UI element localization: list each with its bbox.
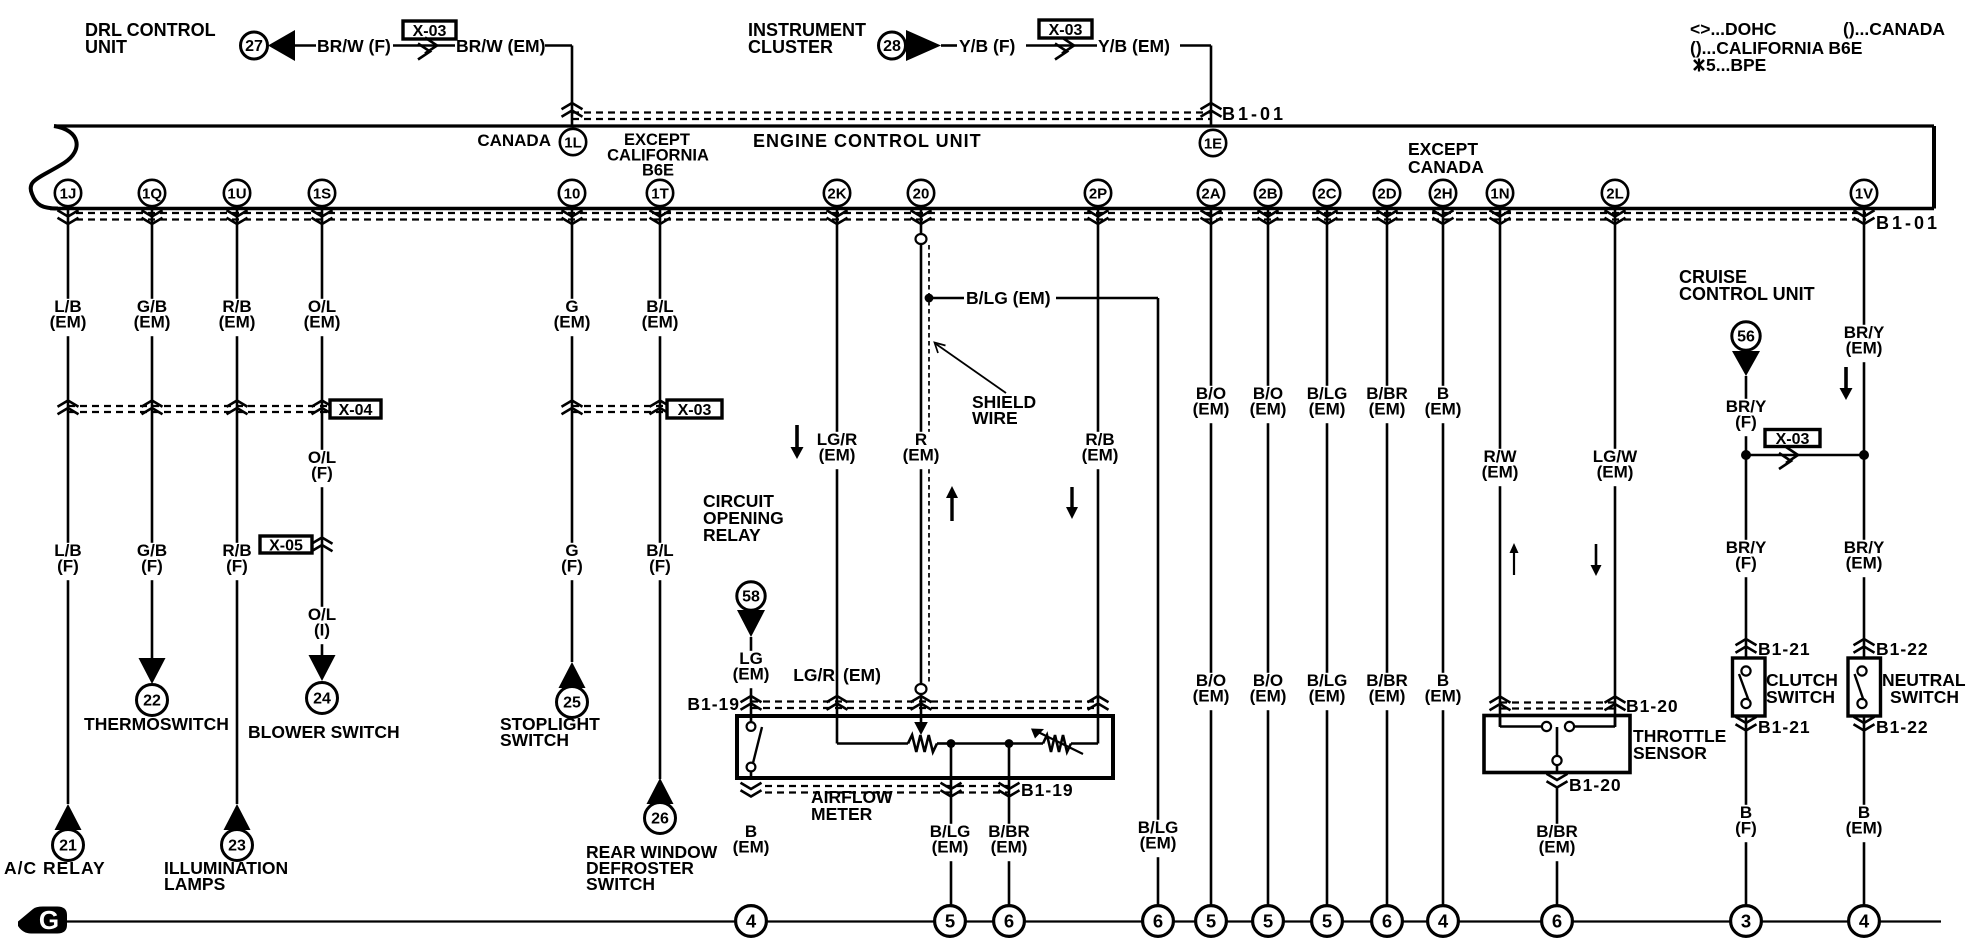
bus B1-19 lower dashed <box>765 785 1009 787</box>
svg-text:CANADA: CANADA <box>1408 157 1484 177</box>
connector B1-21 lower <box>1736 717 1757 723</box>
wire 1S O/L <box>321 208 324 657</box>
svg-text:2B: 2B <box>1258 186 1277 203</box>
svg-text:(F): (F) <box>57 557 79 576</box>
svg-text:(EM): (EM) <box>219 313 256 332</box>
ground pin 3 clutch <box>1731 906 1762 937</box>
svg-text:X-03: X-03 <box>413 23 447 40</box>
ground pin 6 2D <box>1372 906 1403 937</box>
ECU pin 2L <box>1602 180 1628 206</box>
ground pin 4 neutral <box>1849 906 1880 937</box>
svg-text:LG/R: LG/R <box>793 665 835 685</box>
connector B1-20 lower <box>1547 774 1568 780</box>
throttle sensor contacts <box>1499 715 1502 727</box>
svg-text:()...CANADA: ()...CANADA <box>1843 19 1945 39</box>
svg-text:(EM): (EM) <box>1846 339 1883 358</box>
wire 2D B/BR <box>1386 208 1389 906</box>
svg-text:1V: 1V <box>1855 186 1873 203</box>
ECU pin 1T <box>647 180 673 206</box>
svg-text:(F): (F) <box>1735 413 1757 432</box>
svg-text:1S: 1S <box>313 186 331 203</box>
svg-text:SWITCH: SWITCH <box>1766 687 1835 707</box>
label B/O (EM) 2A lower <box>1187 673 1235 710</box>
svg-text:(EM): (EM) <box>1250 687 1287 706</box>
ECU pin 2A <box>1198 180 1224 206</box>
label B/L (F) <box>641 543 679 580</box>
label O/L (F) <box>303 450 341 487</box>
svg-text:BR/W (F): BR/W (F) <box>317 36 391 56</box>
wire 1T B/L <box>659 208 662 779</box>
wire B/BR throttle <box>1556 788 1559 906</box>
svg-text:1Q: 1Q <box>142 186 162 203</box>
svg-text:1L: 1L <box>564 135 582 152</box>
thermoswitch 22 <box>139 658 166 684</box>
svg-text:(EM): (EM) <box>819 446 856 465</box>
wire 2K LG/R <box>836 208 839 744</box>
clutch switch SW1 <box>1733 658 1766 716</box>
svg-text:CANADA: CANADA <box>477 131 551 150</box>
wire 2L LG/W <box>1614 208 1617 727</box>
svg-text:(F): (F) <box>649 557 671 576</box>
svg-text:(EM): (EM) <box>50 313 87 332</box>
svg-text:(EM): (EM) <box>1369 400 1406 419</box>
svg-text:METER: METER <box>811 804 873 824</box>
svg-text:Y/B (F): Y/B (F) <box>959 36 1015 56</box>
svg-text:X-05: X-05 <box>269 537 303 554</box>
svg-text:1J: 1J <box>60 186 77 203</box>
svg-text:(EM): (EM) <box>932 838 969 857</box>
svg-text:RELAY: RELAY <box>703 525 761 545</box>
label B/O (EM) 2B lower <box>1244 673 1292 710</box>
svg-text:B1-19: B1-19 <box>687 694 740 714</box>
label B/BR (EM) 2D <box>1363 386 1411 423</box>
svg-text:(EM): (EM) <box>1193 687 1230 706</box>
airflow switch contacts <box>750 716 753 722</box>
label G/B (EM) <box>128 299 176 336</box>
airflow meter variable resistor <box>1043 735 1071 752</box>
svg-text:B1-20: B1-20 <box>1569 775 1622 795</box>
ECU pin 1V <box>1851 180 1877 206</box>
svg-text:B1-01: B1-01 <box>1222 104 1286 124</box>
svg-text:CONTROL UNIT: CONTROL UNIT <box>1679 284 1815 304</box>
svg-text:(EM): (EM) <box>1369 687 1406 706</box>
ECU pin 1S <box>309 180 335 206</box>
wire 2A B/O <box>1210 208 1213 906</box>
svg-text:4: 4 <box>1859 911 1870 932</box>
svg-text:20: 20 <box>913 186 930 203</box>
svg-text:(I): (I) <box>314 621 330 640</box>
svg-text:6: 6 <box>1382 911 1392 932</box>
svg-text:CLUSTER: CLUSTER <box>748 37 833 57</box>
wire 1V BR/Y <box>1863 208 1866 906</box>
svg-text:5: 5 <box>945 911 955 932</box>
svg-text:(EM): (EM) <box>733 665 770 684</box>
svg-text:(EM): (EM) <box>1309 687 1346 706</box>
label R/B (EM) 2P <box>1076 432 1124 469</box>
svg-text:5: 5 <box>1263 911 1273 932</box>
svg-text:<>...DOHC: <>...DOHC <box>1690 19 1777 39</box>
ground pin 4 airflow <box>736 906 767 937</box>
svg-text:6: 6 <box>1552 911 1562 932</box>
svg-text:(EM): (EM) <box>991 838 1028 857</box>
label G (EM) <box>548 299 596 336</box>
svg-text:A/C RELAY: A/C RELAY <box>4 858 106 878</box>
arrows direction mid <box>950 496 953 521</box>
svg-text:G: G <box>39 905 59 935</box>
svg-text:(F): (F) <box>561 557 583 576</box>
label B (EM) neutral <box>1840 805 1888 842</box>
svg-text:2C: 2C <box>1317 186 1336 203</box>
svg-text:22: 22 <box>143 693 161 710</box>
label B/O (EM) 2B <box>1244 386 1292 423</box>
ground symbol G <box>18 907 67 934</box>
svg-text:1U: 1U <box>227 186 246 203</box>
svg-text:Y/B (EM): Y/B (EM) <box>1098 36 1170 56</box>
svg-text:23: 23 <box>228 838 246 855</box>
svg-text:(F): (F) <box>226 557 248 576</box>
connector B1-21 upper <box>1736 639 1757 645</box>
label R/B (F) <box>218 543 256 580</box>
bus B1-01 bottom dashed <box>76 212 1866 214</box>
label B/LG (EM) 2C <box>1303 386 1351 423</box>
label B/BR (EM) 2D lower <box>1363 673 1411 710</box>
svg-text:(F): (F) <box>1735 819 1757 838</box>
label B/LG (EM) drain <box>1134 820 1182 857</box>
label G/B (F) <box>133 543 171 580</box>
ECU pin 2C <box>1314 180 1340 206</box>
svg-text:3: 3 <box>1741 911 1751 932</box>
ECU pin 2P <box>1085 180 1111 206</box>
ground bus <box>60 920 1941 922</box>
svg-text:1N: 1N <box>1490 186 1509 203</box>
svg-text:(EM): (EM) <box>843 665 881 685</box>
svg-text:B1-21: B1-21 <box>1758 639 1811 659</box>
connector 28 instrument cluster <box>879 32 906 59</box>
svg-text:2A: 2A <box>1201 186 1220 203</box>
label R/W (EM) <box>1476 449 1524 486</box>
svg-text:(EM): (EM) <box>1846 554 1883 573</box>
svg-text:B/LG (EM): B/LG (EM) <box>966 288 1051 308</box>
connector X-03 mid dashed <box>572 405 667 407</box>
connector X-03 cruise <box>1746 454 1864 457</box>
ground pin 4 2H <box>1428 906 1459 937</box>
label B (EM) airflow <box>727 824 775 861</box>
wire 2C B/LG <box>1326 208 1329 906</box>
wire 1U R/B <box>236 208 239 804</box>
svg-text:X-03: X-03 <box>678 402 712 419</box>
svg-text:(EM): (EM) <box>1425 400 1462 419</box>
throttle sensor box <box>1484 716 1630 773</box>
svg-text:LAMPS: LAMPS <box>164 874 225 894</box>
label BR/Y (EM) 1V <box>1840 325 1888 362</box>
svg-text:B1-22: B1-22 <box>1876 639 1929 659</box>
svg-text:(EM): (EM) <box>642 313 679 332</box>
svg-text:SWITCH: SWITCH <box>1890 687 1959 707</box>
wire 2H B <box>1442 208 1445 906</box>
svg-text:EXCEPT: EXCEPT <box>1408 139 1478 159</box>
wire B/LG shield drain <box>925 294 934 303</box>
airflow meter box <box>737 716 1113 778</box>
svg-text:(EM): (EM) <box>1082 446 1119 465</box>
connector X-04 dashed <box>68 405 330 407</box>
bus B1-20 upper dashed <box>1500 701 1615 703</box>
connector 27 DRL <box>241 32 268 59</box>
svg-text:B1-22: B1-22 <box>1876 717 1929 737</box>
svg-text:56: 56 <box>1737 329 1755 346</box>
label L/B (F) <box>49 543 87 580</box>
svg-text:24: 24 <box>313 691 331 708</box>
label R/B (EM) <box>213 299 261 336</box>
svg-text:26: 26 <box>651 811 669 828</box>
svg-text:2H: 2H <box>1433 186 1452 203</box>
svg-text:(F): (F) <box>1735 554 1757 573</box>
connector 58 circuit opening relay <box>737 582 765 610</box>
svg-text:21: 21 <box>59 838 77 855</box>
throttle sensor wiper <box>1556 727 1559 756</box>
label LG (EM) <box>727 651 775 688</box>
svg-text:5...BPE: 5...BPE <box>1706 55 1766 75</box>
svg-text:B1-21: B1-21 <box>1758 717 1811 737</box>
svg-text:(EM): (EM) <box>1193 400 1230 419</box>
svg-text:(EM): (EM) <box>1425 687 1462 706</box>
svg-text:X-04: X-04 <box>339 402 373 419</box>
wire Y/B (F) <box>941 44 957 47</box>
svg-text:2K: 2K <box>827 186 846 203</box>
label B/O (EM) 2A <box>1187 386 1235 423</box>
svg-text:2L: 2L <box>1606 186 1624 203</box>
svg-text:B6E: B6E <box>642 162 674 180</box>
svg-text:THERMOSWITCH: THERMOSWITCH <box>84 714 229 734</box>
ECU pin 1J <box>55 180 81 206</box>
svg-text:UNIT: UNIT <box>85 37 127 57</box>
svg-text:B1-20: B1-20 <box>1626 696 1679 716</box>
svg-text:WIRE: WIRE <box>972 408 1018 428</box>
label O/L (EM) <box>298 299 346 336</box>
label G (F) <box>553 543 591 580</box>
connector X-05 <box>312 538 333 544</box>
wire 20 R with shield <box>920 208 923 722</box>
ECU pin 1N <box>1487 180 1513 206</box>
svg-text:(EM): (EM) <box>554 313 591 332</box>
label O/L (I) <box>303 607 341 644</box>
svg-text:5: 5 <box>1206 911 1216 932</box>
ground pin 5 2B <box>1253 906 1284 937</box>
label B (EM) 2H lower <box>1419 673 1467 710</box>
A/C relay 21 <box>55 804 82 830</box>
wire 2B B/O <box>1267 208 1270 906</box>
svg-text:1T: 1T <box>651 186 669 203</box>
blower switch 24 <box>309 655 336 681</box>
ground pin 6 airflow <box>994 906 1025 937</box>
ECU pin 1Q <box>139 180 165 206</box>
wire 10 G <box>571 208 574 662</box>
arrow down 1V <box>1844 367 1848 390</box>
neutral switch SW2 <box>1848 658 1881 716</box>
connector 56 cruise <box>1732 322 1760 350</box>
svg-text:5: 5 <box>1322 911 1332 932</box>
svg-text:6: 6 <box>1004 911 1014 932</box>
svg-text:(EM): (EM) <box>1539 838 1576 857</box>
svg-text:(EM): (EM) <box>1482 463 1519 482</box>
ECU pin 2D <box>1374 180 1400 206</box>
wire 1Q G/B <box>151 208 154 660</box>
svg-text:SWITCH: SWITCH <box>586 874 655 894</box>
wires from resistor taps <box>950 744 953 906</box>
arrow down LG/R <box>795 425 799 449</box>
svg-text:(EM): (EM) <box>733 838 770 857</box>
illumination lamps 23 <box>224 804 251 830</box>
svg-text:25: 25 <box>563 695 581 712</box>
svg-text:10: 10 <box>564 186 581 203</box>
svg-text:2D: 2D <box>1377 186 1396 203</box>
svg-text:SENSOR: SENSOR <box>1633 743 1707 763</box>
connector B1-22 lower <box>1854 717 1875 723</box>
label R (EM) <box>897 432 945 469</box>
svg-text:B1-19: B1-19 <box>1021 780 1074 800</box>
wire LG <box>750 637 753 716</box>
svg-text:(EM): (EM) <box>1309 400 1346 419</box>
svg-text:(EM): (EM) <box>1597 463 1634 482</box>
svg-text:(EM): (EM) <box>903 446 940 465</box>
svg-text:(EM): (EM) <box>1250 400 1287 419</box>
svg-text:(EM): (EM) <box>134 313 171 332</box>
connector X-03 (Y/B) <box>1039 20 1092 38</box>
ground pin 6 shield <box>1143 906 1174 937</box>
svg-text:BR/W (EM): BR/W (EM) <box>456 36 545 56</box>
label LG/W (EM) <box>1591 449 1639 486</box>
label B (EM) 2H <box>1419 386 1467 423</box>
ground pin 5 2C <box>1312 906 1343 937</box>
label L/B (EM) <box>44 299 92 336</box>
wire BR/Y (F) cruise <box>1745 376 1748 906</box>
svg-text:X-03: X-03 <box>1049 22 1083 39</box>
label BR/Y (F) <box>1722 399 1770 436</box>
svg-text:(F): (F) <box>311 464 333 483</box>
svg-text:X-03: X-03 <box>1776 431 1810 448</box>
engine control unit box ECU <box>31 126 77 209</box>
svg-text:SWITCH: SWITCH <box>500 730 569 750</box>
ECU pin 2H <box>1430 180 1456 206</box>
svg-text:4: 4 <box>746 911 757 932</box>
label LG/R (EM) <box>813 432 861 469</box>
bus B1-01 top dashed <box>572 111 1211 113</box>
connector X-03 (BR/W) <box>403 21 456 39</box>
connector 1E <box>1200 130 1226 156</box>
svg-text:BLOWER SWITCH: BLOWER SWITCH <box>248 722 400 742</box>
svg-text:2P: 2P <box>1089 186 1107 203</box>
stoplight switch 25 <box>559 662 586 688</box>
wire 2P R/B <box>1097 208 1100 744</box>
airflow meter resistor <box>837 742 908 745</box>
svg-text:(EM): (EM) <box>1140 834 1177 853</box>
svg-text:1E: 1E <box>1204 136 1222 153</box>
rear window defroster switch 26 <box>647 778 674 804</box>
label B/BR (EM) airflow <box>985 824 1033 861</box>
label B (F) <box>1727 805 1765 842</box>
wire BR/W (F) <box>295 44 316 47</box>
ground pin 6 throttle <box>1542 906 1573 937</box>
svg-text:27: 27 <box>245 38 263 55</box>
svg-text:ENGINE CONTROL UNIT: ENGINE CONTROL UNIT <box>753 131 982 151</box>
label BR/Y (F) lower <box>1722 540 1770 577</box>
svg-text:(F): (F) <box>141 557 163 576</box>
label B/LG (EM) 2C lower <box>1303 673 1351 710</box>
label B/LG (EM) airflow <box>926 824 974 861</box>
ECU pin 20 <box>908 180 934 206</box>
svg-text:58: 58 <box>742 589 760 606</box>
label BR/Y (EM) lower <box>1840 540 1888 577</box>
svg-text:28: 28 <box>883 38 901 55</box>
svg-text:B1-01: B1-01 <box>1876 213 1940 233</box>
ground pin 5 2A <box>1196 906 1227 937</box>
label B/L (EM) <box>636 299 684 336</box>
label B/BR (EM) throttle <box>1533 824 1581 861</box>
connector B1-22 upper <box>1854 639 1875 645</box>
svg-text:(EM): (EM) <box>304 313 341 332</box>
svg-text:4: 4 <box>1438 911 1449 932</box>
svg-text:(EM): (EM) <box>1846 819 1883 838</box>
svg-text:6: 6 <box>1153 911 1163 932</box>
wire 1N R/W <box>1499 208 1502 727</box>
ground pin 5 airflow <box>935 906 966 937</box>
ECU pin 2B <box>1255 180 1281 206</box>
ECU pin 10 <box>559 180 585 206</box>
wire 1J L/B <box>67 208 70 804</box>
ECU pin 1U <box>224 180 250 206</box>
ECU pin 2K <box>824 180 850 206</box>
